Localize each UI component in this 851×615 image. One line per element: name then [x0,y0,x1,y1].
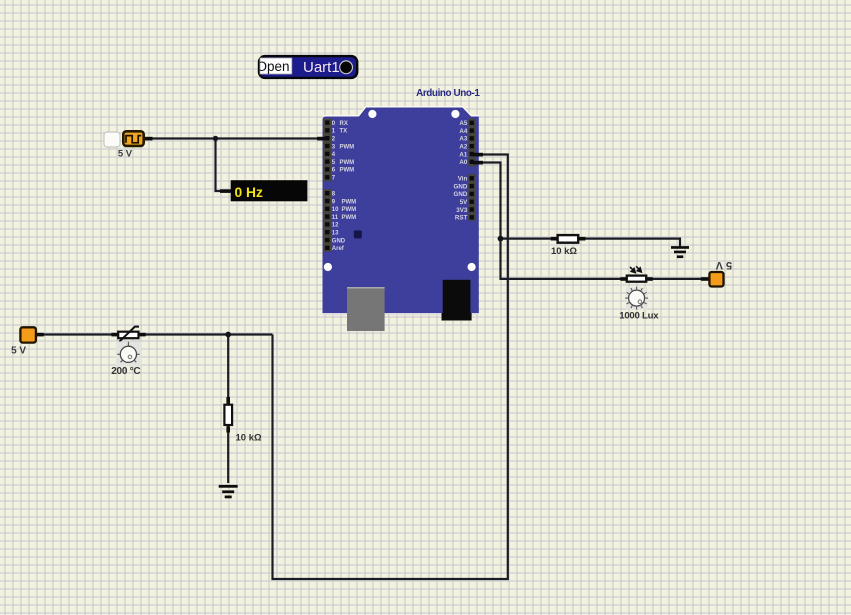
svg-text:Vin: Vin [458,176,468,183]
pin header right power [468,174,476,221]
LDR right pin [647,277,653,281]
svg-text:11: 11 [332,215,339,221]
board top highlight [323,107,479,116]
svg-text:10 kΩ: 10 kΩ [236,433,262,444]
uart status led [340,61,353,74]
Arduino Uno-1 [317,88,483,331]
clock output pin [145,137,153,141]
R2 bottom pin [226,426,230,432]
pads left [325,120,329,124]
wire clock to pin2 [150,137,325,139]
pin stub A0 [473,161,483,165]
TH1 right pin [139,333,146,337]
uart panel body [259,56,357,78]
junction node J2 [498,236,504,242]
freq meter input pin [220,189,231,193]
UART widget button Open Uart1 [257,56,358,78]
wire thermistor row left [42,333,112,335]
svg-text:12: 12 [332,223,339,229]
svg-text:A1: A1 [459,151,467,158]
V2 body [709,272,723,287]
LDR body [627,276,646,282]
TH1 dial panel [116,341,141,366]
pin labels right A5-RST [454,120,469,222]
svg-text:5 V: 5 V [118,149,133,160]
svg-text:PWM: PWM [340,144,355,150]
wire thermistor row right [145,333,273,335]
svg-text:13: 13 [332,231,339,237]
junction node J3 [225,332,231,338]
light arrows [630,266,641,272]
pin labels left 0-Aref [332,121,356,252]
svg-text:10: 10 [332,207,339,213]
svg-text:A5: A5 [459,120,467,127]
svg-text:5 V: 5 V [11,346,26,357]
wire LDR to V2 [653,278,702,280]
svg-text:200 °C: 200 °C [111,366,140,377]
svg-text:GND: GND [454,183,468,190]
R2 top pin [226,397,230,404]
svg-text:TX: TX [340,129,348,135]
V2 pin [701,277,709,281]
mounting holes [368,110,376,118]
svg-text:RST: RST [455,215,468,222]
R2 body [224,405,232,425]
svg-text:5V: 5V [460,199,468,206]
LDR LDR1 [619,266,659,321]
frequency meter FREQ1 [220,180,307,201]
R1 body [558,235,579,243]
clock body [123,131,143,146]
wire A1 long run to thermistor node [273,155,508,580]
TH1 diagonal symbol [119,327,139,342]
fixed voltage V2 (rotated 5V) [701,259,732,287]
svg-text:Aref: Aref [332,246,345,252]
V1 body [20,327,36,342]
V1 pin [36,333,44,337]
pin header left digital 0-7 [324,119,332,182]
clock toggle button [104,132,120,147]
R1 right pin [579,237,585,241]
svg-text:RX: RX [340,121,348,127]
wire R2 to ground [227,426,229,483]
svg-text:PWM: PWM [342,207,357,213]
svg-text:10 kΩ: 10 kΩ [551,246,577,257]
pin header left digital 8-aref [324,189,332,252]
svg-text:A0: A0 [459,159,467,166]
svg-text:1000 Lux: 1000 Lux [619,310,659,321]
wire A0 down [474,163,501,239]
TH1 body [118,332,138,339]
resistor R1 10k horizontal [551,235,586,257]
svg-text:PWM: PWM [340,160,355,166]
thermistor TH1 [111,327,145,378]
ground GND2 [219,485,238,498]
pin header right analog [468,119,476,167]
junction node J1 [213,136,218,141]
svg-text:5 V: 5 V [715,259,732,271]
svg-text:GND: GND [454,191,468,198]
svg-text:0 Hz: 0 Hz [235,185,263,200]
wire R1 to ground [585,239,681,247]
wire node down to LDR row [501,239,622,279]
pin pads [325,120,474,250]
svg-text:Arduino Uno-1: Arduino Uno-1 [416,88,480,99]
svg-text:Uart1: Uart1 [303,59,340,76]
wire node down to R2 [227,335,229,401]
LDR dial panel [626,287,648,309]
board bottom highlight [323,313,479,315]
fixed voltage V1 5V [11,327,44,356]
clock waveform symbol [126,136,141,143]
svg-text:A2: A2 [459,144,467,151]
svg-text:A3: A3 [459,136,467,143]
led L13 [354,230,362,238]
svg-text:PWM: PWM [342,199,357,205]
pads right [470,121,474,125]
wire junction to freq meter [216,139,223,192]
open button [260,58,292,74]
svg-text:3V3: 3V3 [456,207,468,214]
svg-text:A4: A4 [459,128,467,135]
resistor R2 10k vertical [224,397,262,444]
svg-text:GND: GND [332,238,346,244]
pin stub D2 [317,137,326,141]
svg-text:PWM: PWM [342,215,357,221]
LDR left pin [620,277,626,281]
svg-text:Open: Open [257,59,290,74]
svg-text:PWM: PWM [340,168,355,174]
ground GND1 [671,246,689,258]
freq meter display [231,180,308,201]
wire node to R1 [501,238,553,240]
TH1 left pin [111,333,118,337]
R1 left pin [551,237,557,241]
board outline [323,108,479,314]
power jack [443,280,471,313]
USB connector [347,287,385,331]
clock source CLK1 [104,131,153,159]
pin stub A1 [473,153,483,157]
